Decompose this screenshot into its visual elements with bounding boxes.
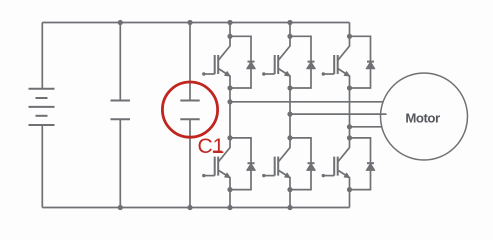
svg-text:C1: C1: [198, 135, 225, 158]
svg-text:Motor: Motor: [405, 111, 440, 126]
